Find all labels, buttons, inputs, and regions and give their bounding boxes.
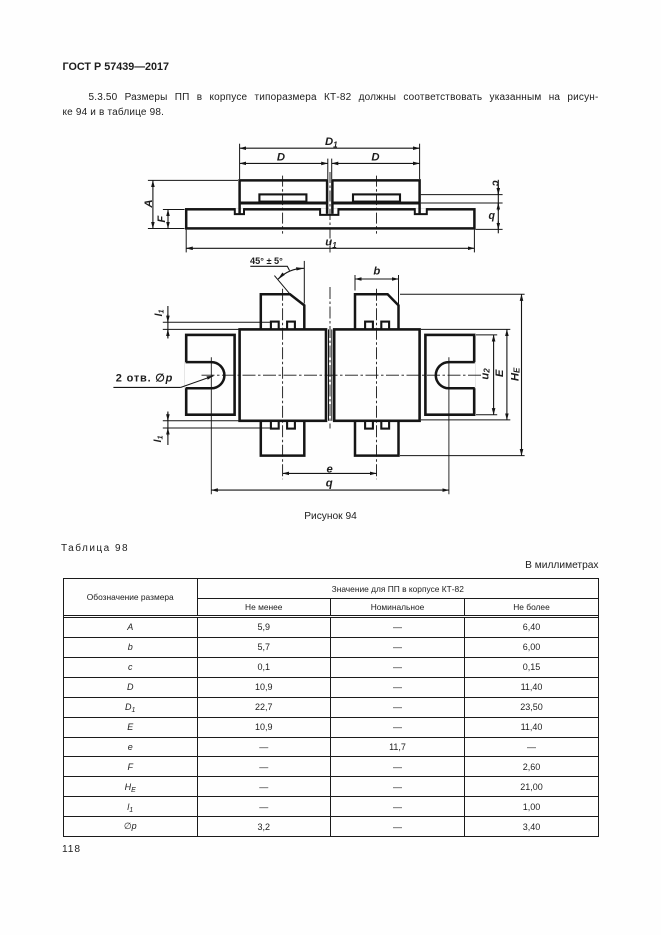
slit centerline plan — [329, 287, 331, 429]
svg-text:E: E — [494, 369, 506, 377]
right mounting tab — [425, 335, 474, 415]
right slot white cut — [436, 362, 476, 388]
die platform left — [259, 194, 306, 201]
arrow to c top — [497, 187, 499, 195]
slit inner lines — [328, 329, 330, 420]
svg-text:u1: u1 — [325, 237, 337, 250]
label underline leader — [250, 266, 289, 270]
right slot outline — [436, 362, 475, 388]
l1 top extension lines — [163, 321, 272, 323]
extension lines for c (lead thickness) — [421, 194, 503, 196]
svg-text:2 отв. ∅p: 2 отв. ∅p — [116, 373, 173, 385]
running head ГОСТ Р 57439—2017 — [63, 61, 170, 73]
lead line right half — [333, 202, 418, 205]
arrow to q bottom — [497, 221, 499, 229]
U2 extension lines — [476, 334, 497, 336]
left slot white cut — [185, 362, 224, 388]
dimension HE — [521, 294, 523, 455]
paragraph 5.3.50 — [63, 90, 599, 121]
extension lines for D1 / D — [239, 144, 241, 179]
caption Рисунок 94 — [0, 511, 661, 522]
label underline — [113, 386, 180, 388]
horizontal centerline — [202, 374, 484, 376]
dimension D1 — [240, 147, 420, 149]
svg-text:45° ± 5°: 45° ± 5° — [250, 256, 283, 266]
right body outline — [334, 329, 419, 420]
top lead right (with 45 deg chamfer) — [355, 294, 399, 329]
bottom lead left — [261, 421, 305, 455]
FIGURE SVG placeholder — [0, 0, 661, 560]
svg-text:q: q — [326, 477, 333, 489]
extension line for F — [163, 209, 185, 211]
arc arrow at vertical line — [296, 267, 304, 270]
lead base marks top left — [271, 322, 279, 330]
lead line left half — [241, 202, 327, 205]
left slot outline — [186, 362, 225, 388]
dimension A — [152, 180, 154, 228]
cap foot right — [415, 208, 427, 214]
E extension lines — [421, 328, 510, 330]
top lead left (with 45 deg chamfer) — [261, 294, 305, 329]
svg-text:l1: l1 — [154, 309, 165, 316]
dimension q — [211, 489, 449, 491]
dimension b — [355, 278, 399, 280]
table label — [61, 543, 129, 554]
dimensions table — [63, 578, 599, 837]
base flange outline — [186, 209, 474, 228]
leader line to slot arc — [181, 376, 214, 388]
lead base marks bottom left — [271, 421, 279, 429]
dimension U1 — [186, 247, 474, 249]
svg-text:D1: D1 — [325, 136, 338, 149]
lead base marks top right — [365, 322, 373, 330]
svg-text:l1: l1 — [153, 435, 164, 442]
dimension D right — [332, 162, 420, 164]
dimension line c / q vertical — [497, 180, 499, 234]
svg-text:b: b — [373, 265, 380, 277]
dimension E — [506, 329, 508, 420]
svg-text:D: D — [371, 151, 379, 163]
lead base marks bottom right — [365, 421, 373, 429]
cap foot left — [235, 208, 244, 214]
svg-text:HE: HE — [510, 367, 522, 381]
dimension D left — [240, 162, 328, 164]
arc arrow at chamfer line — [278, 273, 285, 280]
svg-text:q: q — [488, 210, 495, 222]
body centerline right — [376, 289, 378, 480]
arrow to c bottom / q top — [497, 203, 499, 211]
svg-text:D: D — [277, 151, 285, 163]
HE extension lines — [400, 293, 525, 295]
45 deg chamfer thin extension — [274, 276, 290, 295]
svg-text:A: A — [143, 199, 155, 208]
extension line base bottom right — [476, 228, 503, 230]
cap left half outline — [240, 180, 328, 214]
left body outline — [240, 329, 326, 420]
dimension F — [167, 210, 169, 229]
hole centerline right — [448, 357, 450, 494]
profile centerline slit — [329, 172, 331, 253]
extension lines for A — [148, 179, 238, 181]
lead edge vertical extension — [303, 261, 305, 304]
profile centerline left cap — [282, 176, 284, 234]
hole centerline left — [210, 357, 212, 494]
svg-text:c: c — [490, 180, 502, 186]
extension lines for U1 — [185, 230, 187, 253]
units note — [0, 560, 599, 571]
profile centerline right cap — [376, 176, 378, 234]
svg-text:u2: u2 — [480, 368, 492, 380]
cap foot center — [320, 208, 338, 215]
dimension U2 — [493, 335, 495, 415]
svg-text:e: e — [326, 463, 332, 475]
extension lines for b — [354, 275, 356, 291]
l1 top dimension — [167, 306, 169, 339]
45 deg arc — [278, 268, 304, 279]
svg-text:F: F — [156, 215, 168, 223]
left mounting tab — [186, 335, 234, 415]
cap right half outline — [332, 180, 419, 214]
l1 bottom dimension — [167, 412, 169, 446]
bottom lead right — [355, 421, 399, 455]
page number — [62, 844, 81, 855]
body centerline left — [282, 289, 284, 480]
dimension e — [283, 472, 377, 474]
l1 bottom extension lines — [163, 420, 239, 422]
die platform right — [353, 194, 400, 201]
